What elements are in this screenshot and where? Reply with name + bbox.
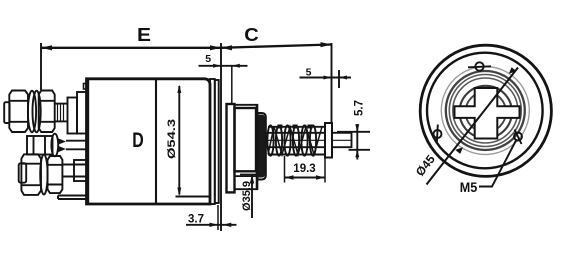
svg-text:5: 5 [205,53,211,65]
svg-text:E: E [137,25,151,45]
svg-text:Ø54.3: Ø54.3 [166,119,178,159]
svg-text:M5: M5 [460,179,478,195]
svg-text:Ø35.9: Ø35.9 [241,181,253,211]
svg-text:5: 5 [306,67,312,79]
svg-text:D: D [132,129,144,152]
svg-text:C: C [244,25,259,45]
svg-text:5.7: 5.7 [354,100,366,116]
svg-text:3.7: 3.7 [188,213,204,225]
svg-text:19.3: 19.3 [293,163,315,175]
